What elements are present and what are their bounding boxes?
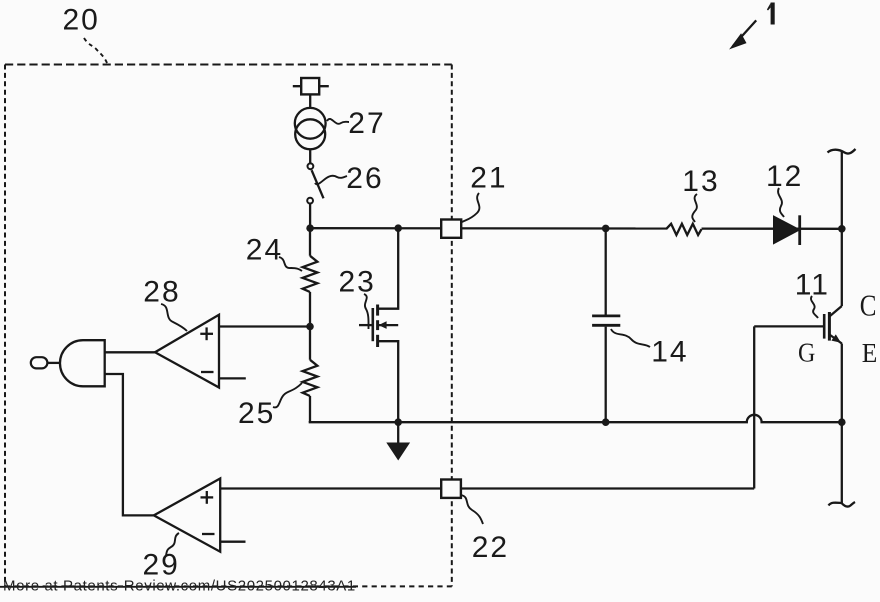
- wire op28 output to AND input1: [105, 351, 155, 353]
- svg-text:23: 23: [339, 266, 376, 299]
- node dot divider mid: [306, 323, 314, 331]
- IGBT gate lead: [754, 325, 824, 327]
- node dot drain: [394, 224, 402, 232]
- emitter rail wire: [841, 344, 843, 505]
- label 14 leader: [611, 329, 650, 347]
- resistor 25: [303, 327, 318, 423]
- collector rail wire: [841, 152, 843, 229]
- node dot emitter rail: [838, 418, 846, 426]
- op-amp 28: [155, 315, 219, 388]
- op-amp 29: [154, 479, 220, 552]
- collector rail terminal squiggle: [828, 149, 856, 154]
- terminal square (top supply tap): [293, 78, 329, 94]
- label 11 leader: [811, 296, 818, 318]
- svg-text:25: 25: [238, 397, 275, 430]
- wire current source to switch: [309, 149, 311, 163]
- collector wire to IGBT: [841, 229, 843, 306]
- svg-text:26: 26: [346, 162, 383, 195]
- op-amp 28 + input wire: [219, 325, 310, 327]
- diode 12: [774, 215, 800, 245]
- ground: [386, 422, 410, 460]
- node dot capacitor top: [602, 225, 610, 233]
- label 22 leader: [461, 495, 483, 524]
- label 20: [63, 4, 108, 64]
- output terminal oval: [31, 357, 48, 368]
- label 13 leader: [692, 194, 697, 222]
- watermark strikethrough: [0, 586, 356, 588]
- top rail wire right segment: [702, 227, 842, 229]
- label 24 leader: [279, 257, 302, 271]
- svg-text:G: G: [798, 337, 815, 368]
- gate route vertical wire: [753, 326, 755, 488]
- dashed enclosure box 20: [5, 65, 452, 587]
- emitter rail terminal squiggle: [829, 502, 856, 507]
- switch 26: [307, 163, 323, 203]
- svg-text:13: 13: [682, 165, 719, 198]
- op-amp 29 - input stub: [220, 541, 245, 543]
- label 12 leader: [778, 188, 784, 217]
- node dot source bottom: [394, 418, 402, 426]
- MOSFET 23 gate bar: [371, 308, 374, 341]
- label 28 leader: [161, 304, 187, 331]
- MOSFET 23 body lead with arrow: [379, 321, 399, 329]
- current source 27: [295, 108, 326, 149]
- IGBT 11: [824, 306, 842, 344]
- top rail wire: [310, 227, 666, 230]
- svg-text:12: 12: [766, 160, 803, 193]
- svg-text:11: 11: [795, 269, 830, 302]
- label 27 leader: [327, 119, 349, 124]
- svg-text:22: 22: [472, 531, 509, 564]
- wire switch to top rail: [309, 204, 311, 229]
- figure number 1: [767, 3, 775, 25]
- svg-text:More at Patents-Review.com/US2: More at Patents-Review.com/US20250012843…: [3, 578, 356, 595]
- node dot capacitor bottom: [602, 418, 610, 426]
- AND gate: [60, 340, 105, 386]
- wire square to current source: [309, 94, 311, 108]
- svg-text:28: 28: [143, 276, 180, 309]
- wire AND input2 to op29 output: [105, 374, 154, 515]
- label 21 leader: [462, 193, 479, 222]
- MOSFET 23 source lead: [378, 341, 399, 422]
- svg-text:C: C: [860, 289, 877, 323]
- label 23 leader: [364, 294, 369, 329]
- svg-text:14: 14: [651, 336, 688, 369]
- op-amp 29 + input wire: [220, 487, 754, 489]
- MOSFET 23 drain lead: [378, 228, 399, 309]
- resistor 13: [666, 224, 702, 235]
- svg-text:27: 27: [348, 107, 385, 140]
- label 25 leader: [273, 383, 302, 407]
- resistor 24: [303, 228, 318, 326]
- op-amp 28 - input stub: [219, 377, 246, 379]
- MOSFET 23 channel segments: [376, 305, 379, 348]
- label 26 leader: [315, 176, 347, 184]
- svg-text:21: 21: [470, 162, 507, 195]
- label 29 leader: [166, 533, 179, 555]
- MOSFET 23 gate stub: [359, 324, 373, 326]
- node square 21: [441, 220, 461, 238]
- node dot top-left: [306, 224, 314, 232]
- node dot collector rail: [838, 225, 846, 233]
- svg-text:E: E: [862, 338, 878, 368]
- svg-text:24: 24: [246, 234, 283, 267]
- figure arrow: [731, 20, 756, 48]
- node square 22: [441, 480, 461, 498]
- svg-text:20: 20: [63, 4, 100, 37]
- capacitor 14: [592, 228, 620, 422]
- bottom rail wire with hop: [309, 415, 842, 422]
- AND output stub: [47, 362, 60, 364]
